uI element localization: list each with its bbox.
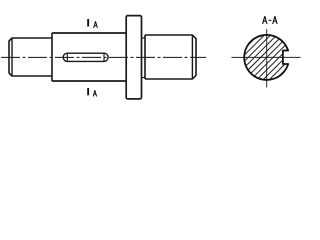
section cut mark top (87, 19, 89, 27)
keyway slot (stadium) (63, 53, 108, 61)
groove line bottom (142, 77, 146, 79)
shaft left end cap (small cylinder) (9, 38, 52, 76)
section view label A-A (263, 16, 278, 24)
wire: main shaft horizontal centerline (1, 56, 206, 58)
section outline: circle with keyway notch (244, 35, 288, 80)
step face cyl1/cyl2 (51, 33, 53, 81)
cylinder 3 (right journal) (145, 35, 196, 79)
flange (126, 16, 141, 99)
hatching (210, 32, 320, 84)
section cut mark bottom (87, 88, 89, 95)
keyway tangent line left (66, 53, 68, 61)
cylinder 2 bottom edge (52, 80, 126, 82)
label A top (94, 21, 98, 28)
keyway tangent line right (103, 53, 105, 61)
section vertical centerline (266, 29, 268, 88)
label A bottom (93, 90, 96, 96)
section horizontal centerline (232, 56, 301, 58)
groove line top (142, 37, 146, 39)
chamfer line left end (11, 38, 13, 76)
chamfer line right end (191, 35, 193, 79)
cylinder 2 top edge (52, 32, 126, 34)
